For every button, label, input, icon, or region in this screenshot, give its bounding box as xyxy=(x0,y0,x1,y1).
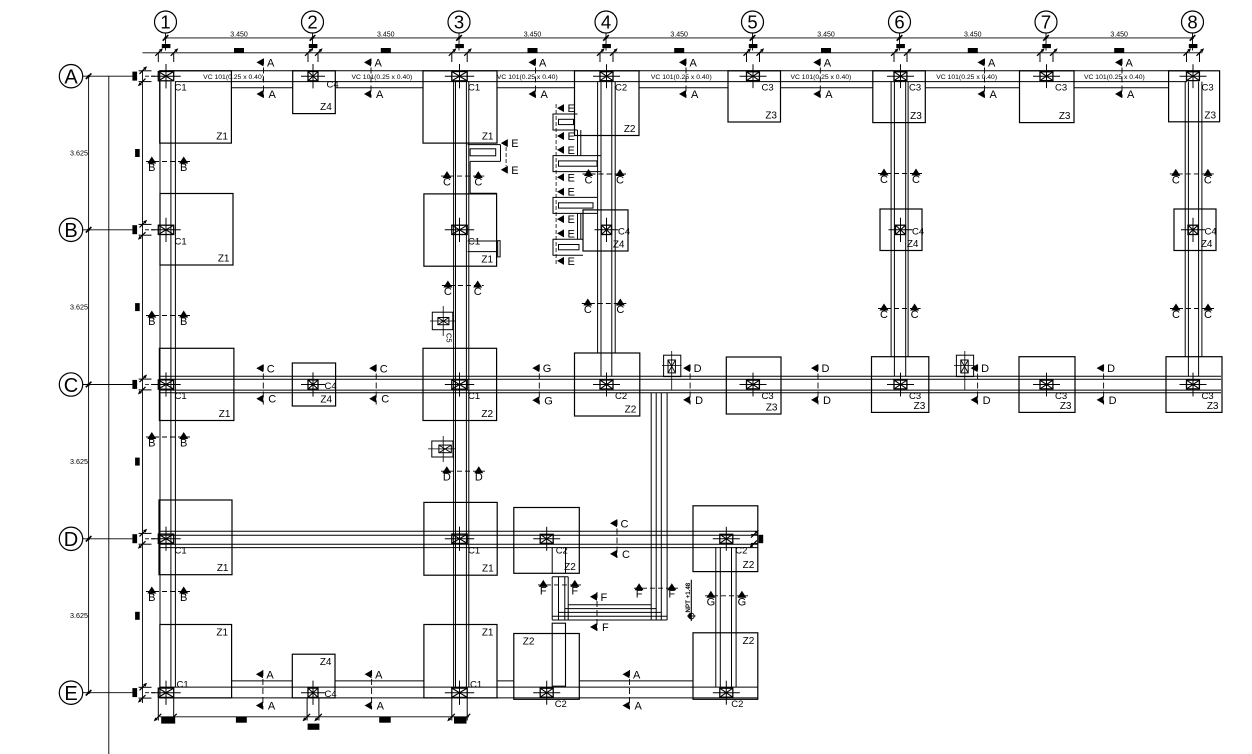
beam grid 8 vertical xyxy=(1184,82,1186,357)
section marker B grid1 y=314.0 xyxy=(146,315,190,317)
svg-text:Z4: Z4 xyxy=(613,240,625,251)
section marker B grid1 y=435.5 xyxy=(146,436,190,438)
svg-text:D: D xyxy=(983,395,991,407)
top beam cut symbol grid 6 xyxy=(896,44,905,48)
column C3 grid8/A xyxy=(1187,72,1200,81)
svg-text:Z1: Z1 xyxy=(216,628,228,639)
column C4 grid2/E xyxy=(308,688,318,697)
left filled mark span 1 xyxy=(135,303,140,311)
svg-text:D: D xyxy=(822,363,830,375)
svg-text:C1: C1 xyxy=(468,545,480,556)
svg-text:E: E xyxy=(568,131,575,143)
svg-text:C: C xyxy=(443,177,451,189)
svg-text:C1: C1 xyxy=(468,236,480,247)
svg-text:C: C xyxy=(912,174,920,186)
upper stair connector 3-4 xyxy=(577,213,579,239)
svg-text:Z2: Z2 xyxy=(625,405,637,416)
svg-text:C: C xyxy=(474,286,482,298)
svg-text:VC 101(0.25 x 0.40): VC 101(0.25 x 0.40) xyxy=(203,74,264,81)
svg-text:C: C xyxy=(911,309,919,321)
top boundary line xyxy=(143,52,1203,54)
svg-text:A: A xyxy=(690,57,698,69)
svg-text:Z3: Z3 xyxy=(765,111,777,122)
svg-text:A: A xyxy=(825,89,833,101)
svg-text:E: E xyxy=(568,103,575,115)
level mark NPT +1.48 xyxy=(690,580,692,621)
svg-text:C2: C2 xyxy=(735,545,747,556)
wall column C5 beam C near grid 4-5 xyxy=(664,355,681,376)
svg-text:C1: C1 xyxy=(175,83,187,94)
stair hook E dashes xyxy=(505,147,507,166)
top filled mark span 1-2 xyxy=(234,48,244,53)
svg-text:C3: C3 xyxy=(909,83,921,94)
top beam cut symbol grid 3 xyxy=(455,44,464,48)
top filled mark span 3-4 xyxy=(528,48,538,53)
footing Z3 #7 xyxy=(1169,71,1220,122)
svg-text:VC 101(0.25 x 0.40): VC 101(0.25 x 0.40) xyxy=(1084,74,1145,81)
column C4 grid4/B xyxy=(602,225,612,234)
svg-text:A: A xyxy=(377,701,385,713)
svg-text:C2: C2 xyxy=(556,545,568,556)
svg-text:F: F xyxy=(602,622,609,634)
svg-text:A: A xyxy=(635,701,643,713)
svg-text:C1: C1 xyxy=(175,236,187,247)
left beam cut symbol row C xyxy=(132,380,137,389)
footing Z1 #2 xyxy=(423,71,497,143)
svg-text:C4: C4 xyxy=(618,226,630,237)
top beam cut symbol grid 5 xyxy=(749,44,758,48)
svg-text:C: C xyxy=(1204,174,1212,186)
column C2 lower block (547,539) xyxy=(540,534,553,543)
svg-text:B: B xyxy=(148,162,155,174)
beam grid 1 vertical xyxy=(159,82,161,688)
section marker C pair y=302.0 xyxy=(582,303,627,305)
svg-text:C: C xyxy=(616,304,624,316)
column C4 grid6/B xyxy=(896,225,906,234)
column C1 grid3/A xyxy=(452,72,467,81)
footing Z2 #29 xyxy=(693,633,758,700)
svg-text:E: E xyxy=(568,214,575,226)
upper stair flight 3 xyxy=(553,197,597,213)
svg-text:G: G xyxy=(543,363,552,375)
svg-text:A: A xyxy=(375,57,383,69)
footing Z1 #0 xyxy=(160,71,232,143)
svg-text:8: 8 xyxy=(1187,12,1197,33)
top filled mark span 2-3 xyxy=(381,48,391,53)
svg-text:NPT +1.48: NPT +1.48 xyxy=(685,582,692,612)
section marker E 5 xyxy=(557,188,564,196)
svg-text:F: F xyxy=(601,592,608,604)
beam row E (VC 101) xyxy=(160,686,758,688)
svg-text:Z3: Z3 xyxy=(1059,111,1071,122)
section marker D row C x=977.6 xyxy=(977,365,979,405)
svg-text:2: 2 xyxy=(307,12,317,33)
svg-text:A: A xyxy=(539,57,547,69)
svg-text:VC 101(0.25 x 0.40): VC 101(0.25 x 0.40) xyxy=(790,74,851,81)
column C1 grid1/C xyxy=(158,380,173,389)
svg-text:Z4: Z4 xyxy=(907,239,919,250)
svg-text:C4: C4 xyxy=(912,226,924,237)
svg-text:C4: C4 xyxy=(1205,226,1217,237)
grid bubble D xyxy=(59,527,82,550)
svg-text:A: A xyxy=(988,57,996,69)
lower stair wall rect xyxy=(552,623,565,686)
svg-text:4: 4 xyxy=(601,12,611,33)
svg-text:A: A xyxy=(990,89,998,101)
column C3 grid5/C xyxy=(747,380,760,389)
grid bubble B xyxy=(59,218,82,241)
svg-text:3: 3 xyxy=(454,12,464,33)
section marker C pair y=172.5 xyxy=(583,173,627,175)
svg-text:C: C xyxy=(621,518,629,530)
section marker F vertical xyxy=(596,592,598,631)
grid bubble A xyxy=(59,65,82,88)
svg-text:D: D xyxy=(823,395,831,407)
upper stair flight 1 xyxy=(553,114,578,130)
section marker B grid1 y=160.0 xyxy=(146,161,190,163)
column C1 grid3/B xyxy=(452,225,467,234)
beam grid 6 vertical xyxy=(890,82,892,357)
row D right cut symbol xyxy=(751,534,758,536)
svg-text:G: G xyxy=(544,395,553,407)
left beam cut symbol row B xyxy=(132,225,137,234)
svg-text:C3: C3 xyxy=(1202,83,1214,94)
section marker A row A #7 xyxy=(1121,59,1123,98)
svg-text:C5: C5 xyxy=(445,333,454,343)
svg-text:3.450: 3.450 xyxy=(670,32,688,39)
svg-text:C4: C4 xyxy=(325,689,337,700)
svg-text:VC 101(0.25 x 0.40): VC 101(0.25 x 0.40) xyxy=(497,74,558,81)
footing Z1 #27 xyxy=(424,625,497,698)
svg-text:C: C xyxy=(474,177,482,189)
svg-text:B: B xyxy=(148,438,155,450)
svg-text:C3: C3 xyxy=(1202,391,1214,402)
svg-text:C3: C3 xyxy=(1055,391,1067,402)
bottom dimension line xyxy=(160,716,469,718)
column C3 grid5/A xyxy=(747,72,760,81)
svg-text:D: D xyxy=(443,472,451,484)
section marker F pair left xyxy=(538,584,581,586)
column C3 grid6/C xyxy=(894,380,907,389)
footing Z4 #1 xyxy=(293,71,336,114)
svg-text:C3: C3 xyxy=(909,391,921,402)
section marker C pair y=172.0 xyxy=(878,173,922,175)
column C3 grid7/C xyxy=(1040,380,1053,389)
svg-text:VC 101(0.25 x 0.40): VC 101(0.25 x 0.40) xyxy=(936,74,997,81)
grid bubble 5 xyxy=(742,11,764,33)
svg-text:Z3: Z3 xyxy=(910,111,922,122)
section marker D grid3 xyxy=(441,470,485,472)
svg-text:3.450: 3.450 xyxy=(964,32,982,39)
svg-text:5: 5 xyxy=(747,12,757,33)
svg-text:Z3: Z3 xyxy=(1060,401,1072,412)
top filled mark span 7-8 xyxy=(1114,48,1124,53)
section marker E 8 xyxy=(557,257,564,265)
svg-text:F: F xyxy=(668,589,675,601)
svg-text:C: C xyxy=(381,394,389,406)
footing Z4 #14 xyxy=(292,363,335,406)
svg-text:E: E xyxy=(568,228,575,240)
svg-text:Z2: Z2 xyxy=(624,124,636,135)
footing Z3 #18 xyxy=(872,357,929,413)
svg-text:B: B xyxy=(148,592,155,604)
column C4 grid2/C xyxy=(308,380,318,389)
svg-text:Z1: Z1 xyxy=(216,132,228,143)
column C1 grid1/B xyxy=(158,225,173,234)
wall column C5 beam C near grid 6-7 xyxy=(956,355,973,376)
beam row C (VC 101) xyxy=(159,375,1221,377)
bottom cut symbol grid 3 xyxy=(451,698,453,721)
column C3 grid6/A xyxy=(894,72,907,81)
svg-text:B: B xyxy=(148,316,155,328)
svg-text:1: 1 xyxy=(160,12,170,33)
svg-text:7: 7 xyxy=(1041,12,1051,33)
svg-text:D: D xyxy=(981,363,989,375)
footing Z2 #28 xyxy=(514,634,580,700)
svg-text:Z1: Z1 xyxy=(218,254,230,265)
grid bubble E xyxy=(59,681,82,704)
svg-text:C2: C2 xyxy=(731,699,743,710)
svg-text:3.450: 3.450 xyxy=(377,32,395,39)
section marker E 1 xyxy=(557,104,564,112)
left outer vertical line xyxy=(108,76,110,754)
svg-text:Z1: Z1 xyxy=(482,628,494,639)
svg-text:C: C xyxy=(1172,174,1180,186)
bottom cut symbol grid 1 xyxy=(157,698,159,721)
svg-text:C: C xyxy=(880,174,888,186)
column C2 grid4/A xyxy=(600,72,613,81)
section marker C row C x=263.3 xyxy=(262,365,264,405)
svg-text:C: C xyxy=(880,309,888,321)
svg-text:C: C xyxy=(1204,309,1212,321)
footing Z3 #6 xyxy=(1020,71,1075,123)
svg-text:C3: C3 xyxy=(1055,83,1067,94)
svg-text:B: B xyxy=(180,592,187,604)
column C3 grid8/C xyxy=(1187,380,1200,389)
svg-text:E: E xyxy=(568,256,575,268)
svg-text:B: B xyxy=(180,438,187,450)
section marker A row E x=371.6 xyxy=(371,670,373,710)
footing Z1 #22 xyxy=(424,502,497,575)
svg-text:C: C xyxy=(380,363,388,375)
svg-text:A: A xyxy=(64,67,78,89)
section marker D row C x=1103.6 xyxy=(1103,365,1105,405)
svg-text:Z1: Z1 xyxy=(219,409,231,420)
section marker E 7 xyxy=(557,229,564,237)
column C2 lower block (547,693) xyxy=(540,688,553,697)
svg-text:C: C xyxy=(622,549,630,561)
lower stair right arms xyxy=(650,393,652,620)
svg-text:3.625: 3.625 xyxy=(70,303,88,312)
svg-text:D: D xyxy=(694,363,702,375)
column C1 grid3/C xyxy=(452,380,467,389)
beam grid 4 vertical xyxy=(597,82,599,353)
svg-text:A: A xyxy=(268,701,276,713)
svg-text:Z4: Z4 xyxy=(320,395,332,406)
svg-text:Z2: Z2 xyxy=(743,636,755,647)
section marker C row C x=376.2 xyxy=(375,365,377,405)
svg-text:Z3: Z3 xyxy=(1207,401,1219,412)
upper stair flight 4 xyxy=(553,239,583,255)
footing Z2 #23 xyxy=(514,508,580,574)
top beam cut symbol grid 1 xyxy=(162,44,171,48)
svg-text:VC 101(0.25 x 0.40): VC 101(0.25 x 0.40) xyxy=(651,74,712,81)
section marker A row A #6 xyxy=(984,59,986,98)
bottom cut symbol grid 2 xyxy=(306,698,308,721)
svg-text:F: F xyxy=(540,585,547,597)
left dimension line xyxy=(88,76,90,693)
svg-text:A: A xyxy=(375,669,383,681)
svg-text:VC 101(0.25 x 0.40): VC 101(0.25 x 0.40) xyxy=(351,74,412,81)
svg-text:A: A xyxy=(633,669,641,681)
svg-text:E: E xyxy=(568,172,575,184)
svg-text:A: A xyxy=(266,669,274,681)
grid bubble 7 xyxy=(1035,11,1057,33)
svg-text:F: F xyxy=(571,585,578,597)
bottom filled mark span2-3 xyxy=(379,717,391,723)
svg-text:3.625: 3.625 xyxy=(70,457,88,466)
svg-text:C3: C3 xyxy=(762,83,774,94)
svg-text:Z1: Z1 xyxy=(481,255,493,266)
svg-text:Z3: Z3 xyxy=(914,401,926,412)
column C1 grid3/D xyxy=(452,534,467,543)
column C4 grid8/B xyxy=(1188,225,1198,234)
section marker G pair lower xyxy=(705,595,748,597)
svg-text:E: E xyxy=(511,138,518,150)
svg-text:Z4: Z4 xyxy=(320,102,332,113)
svg-text:Z4: Z4 xyxy=(1201,239,1213,250)
svg-text:A: A xyxy=(541,89,549,101)
svg-text:3.450: 3.450 xyxy=(230,32,248,39)
grid bubble C xyxy=(59,373,82,396)
section marker A row A #3 xyxy=(535,59,537,98)
svg-text:C: C xyxy=(584,304,592,316)
footing Z3 #17 xyxy=(726,357,781,414)
section marker A row A #4 xyxy=(685,59,687,98)
footing Z2 #3 xyxy=(575,71,640,136)
left beam cut symbol row E xyxy=(132,688,137,697)
svg-text:F: F xyxy=(636,589,643,601)
top beam cut symbol grid 4 xyxy=(602,44,611,48)
svg-text:C: C xyxy=(64,375,78,397)
left filled mark span 0 xyxy=(135,149,140,157)
svg-text:A: A xyxy=(824,57,832,69)
svg-text:A: A xyxy=(691,89,699,101)
section marker A row E x=262.9 xyxy=(262,670,264,710)
beam grid 3 vertical xyxy=(453,82,455,688)
footing Z4 #12 xyxy=(1174,209,1216,251)
footing Z1 #8 xyxy=(160,194,233,266)
column C4 grid2/A xyxy=(308,72,318,81)
top filled mark span 5-6 xyxy=(821,48,831,53)
section marker E 3 xyxy=(557,146,564,154)
svg-text:D: D xyxy=(475,472,483,484)
svg-text:3.450: 3.450 xyxy=(817,32,835,39)
svg-text:E: E xyxy=(568,187,575,199)
svg-text:B: B xyxy=(180,162,187,174)
beam row D (VC 101) xyxy=(159,530,758,532)
column C1 grid1/A xyxy=(158,72,173,81)
svg-text:Z1: Z1 xyxy=(217,563,229,574)
grid bubble 3 xyxy=(448,11,470,33)
svg-text:C: C xyxy=(444,286,452,298)
svg-text:Z2: Z2 xyxy=(481,409,493,420)
beam x=726 vertical (lower block) xyxy=(715,547,717,687)
svg-text:A: A xyxy=(269,89,277,101)
svg-text:C1: C1 xyxy=(470,680,482,691)
svg-text:D: D xyxy=(695,395,703,407)
section marker F pair right xyxy=(634,587,678,589)
footing Z2 #24 xyxy=(693,506,758,572)
grid bubble 1 xyxy=(155,11,177,33)
svg-text:C1: C1 xyxy=(468,391,480,402)
column C1 grid3/E xyxy=(452,688,467,697)
column C2 lower block (726,693) xyxy=(720,688,733,697)
section marker E 6 xyxy=(557,215,564,223)
footing Z3 #20 xyxy=(1166,357,1222,413)
svg-text:G: G xyxy=(707,596,716,608)
wall column C5 grid3 B-C xyxy=(432,312,453,330)
svg-text:A: A xyxy=(1127,89,1135,101)
section marker C pair y=174.6 xyxy=(441,175,484,177)
svg-text:C1: C1 xyxy=(177,680,189,691)
svg-text:C: C xyxy=(616,175,624,187)
svg-text:D: D xyxy=(1109,395,1117,407)
left beam cut symbol row A xyxy=(132,72,137,81)
svg-text:B: B xyxy=(180,316,187,328)
stair hook grid3 A-B xyxy=(468,144,501,146)
svg-text:3.450: 3.450 xyxy=(1110,32,1128,39)
lower stair upper wall xyxy=(551,547,553,573)
section marker C pair y=172.4 xyxy=(1170,173,1214,175)
lower stair left arms xyxy=(552,576,568,578)
top filled mark span 6-7 xyxy=(968,48,978,53)
section marker C pair y=307.0 xyxy=(1170,308,1214,310)
svg-text:C: C xyxy=(268,394,276,406)
beam row A (VC 101) xyxy=(160,70,1201,72)
column C2 lower block (726,539) xyxy=(720,534,733,543)
svg-text:D: D xyxy=(64,529,78,551)
column C1 grid1/E xyxy=(158,688,173,697)
footing Z4 #10 xyxy=(583,210,628,251)
section marker A row A #1 xyxy=(263,59,265,98)
section marker D row C x=818.0 xyxy=(817,365,819,405)
svg-text:C2: C2 xyxy=(555,699,567,710)
left beam cut symbol row D xyxy=(132,534,137,543)
top beam cut symbol grid 8 xyxy=(1189,44,1198,48)
footing Z1 #21 xyxy=(159,500,232,575)
top beam cut symbol grid 7 xyxy=(1042,44,1051,48)
footing Z2 #16 xyxy=(575,353,640,416)
section marker A row E x=629.5 xyxy=(629,670,631,710)
grid bubble 8 xyxy=(1182,11,1204,33)
svg-text:6: 6 xyxy=(894,12,904,33)
svg-text:A: A xyxy=(1126,57,1134,69)
grid bubble 2 xyxy=(302,11,324,33)
svg-text:Z1: Z1 xyxy=(482,132,494,143)
footing Z4 #26 xyxy=(292,654,335,698)
column C3 grid7/A xyxy=(1040,72,1053,81)
bottom filled mark span1-2 xyxy=(236,717,247,723)
section marker B grid1 y=590.0 xyxy=(146,591,190,593)
svg-text:C4: C4 xyxy=(325,381,337,392)
svg-text:3.625: 3.625 xyxy=(70,611,88,620)
section marker E hook bottom xyxy=(501,166,508,174)
column C2 grid4/C xyxy=(600,380,613,389)
top beam cut symbol grid 2 xyxy=(309,44,318,48)
svg-text:C4: C4 xyxy=(327,80,339,91)
svg-text:C2: C2 xyxy=(615,391,627,402)
